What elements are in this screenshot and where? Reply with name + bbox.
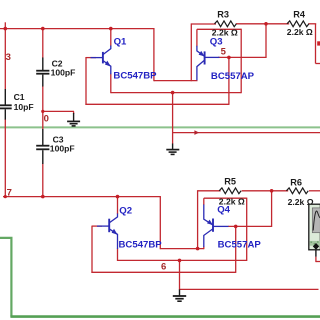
wire y92.6 emitter net [111, 92, 241, 94]
wire Q4 collector down red part [203, 247, 205, 250]
wire top rail VCC [0, 28, 155, 30]
wire x246.7 vertical [246, 198, 248, 261]
node arrow on wire y132.6 [194, 130, 199, 135]
capacitor C1 [0, 89, 34, 120]
wire y260.4 horizontal [118, 259, 247, 261]
svg-text:6: 6 [161, 262, 166, 273]
wire Q1 base red part [86, 57, 96, 59]
wire green net bottom horizontal [10, 315, 320, 318]
wire green net middle horizontal [0, 126, 320, 128]
wire Q1 emitter down [110, 74, 112, 94]
wire R6 right lead to edge [309, 190, 320, 192]
transistor Q1 BC547BP npn [91, 46, 111, 75]
wire y272.3 horizontal [91, 271, 235, 273]
wire x197.6 vertical R5 left [197, 190, 199, 248]
ground 1 near C2 [67, 113, 80, 126]
wire x266 vertical [265, 24, 267, 58]
svg-text:3: 3 [6, 52, 11, 63]
resistor R3 [212, 9, 238, 37]
capacitor C2 [36, 58, 75, 87]
svg-text:R3: R3 [217, 9, 229, 19]
wire y80.6 to R3 branch [154, 80, 198, 82]
svg-text:R4: R4 [293, 9, 306, 19]
wire x86 vertical [85, 57, 87, 105]
svg-text:BC557AP: BC557AP [218, 240, 262, 251]
resistor R5 [219, 176, 245, 206]
wire Q4 base to x271.6 [228, 225, 272, 227]
wire x315.5 vertical [315, 24, 317, 64]
wire x271.6 vertical [271, 191, 273, 227]
wire ground1 drop [73, 111, 75, 114]
capacitor C3 [36, 129, 74, 164]
wire R3 left lead [191, 23, 216, 25]
wire C2 bottom to junction [42, 86, 44, 129]
wire x235.7 vertical [235, 226, 237, 273]
wire Q1 collector up [110, 29, 112, 47]
wire Q3 base to x266 [218, 56, 266, 58]
wire y198.2 box top [204, 197, 247, 199]
svg-text:R6: R6 [290, 178, 302, 188]
wire x160.3 vertical [159, 197, 161, 250]
wire bottom rail y196.6 [3, 196, 161, 198]
ground 2 center [166, 144, 179, 155]
wire green net left stub [0, 238, 11, 317]
wire x228.9 vertical [228, 57, 230, 105]
wire R5 left lead [198, 190, 221, 192]
resistor R6 [286, 178, 313, 208]
wire Q4 emitter drop [203, 198, 205, 205]
wire Q2 emitter down [117, 249, 119, 262]
svg-text:C1: C1 [14, 92, 25, 102]
transistor Q2 BC547BP npn [97, 214, 118, 250]
svg-text:5: 5 [221, 47, 227, 58]
svg-text:10pF: 10pF [14, 102, 34, 112]
svg-text:100pF: 100pF [50, 144, 75, 154]
instrument XSC1 right edge [309, 204, 320, 262]
svg-text:2.2k Ω: 2.2k Ω [287, 27, 313, 37]
svg-text:Q4: Q4 [217, 204, 230, 215]
svg-text:0: 0 [44, 113, 49, 124]
wire C1 top [4, 29, 6, 90]
svg-text:100pF: 100pF [51, 68, 76, 78]
wire rail drop right [153, 28, 155, 81]
wire y132.6 to right edge [173, 132, 320, 134]
ground 3 bottom [173, 289, 186, 301]
svg-text:Q2: Q2 [119, 206, 132, 217]
resistor R4 [287, 9, 313, 37]
wire y104.3 horizontal [85, 103, 229, 105]
wire x92 vertical [91, 226, 93, 273]
svg-text:BC557AP: BC557AP [211, 71, 255, 82]
wire Q3 emitter drop [196, 29, 198, 46]
wire R5 to R6 [242, 190, 289, 192]
wire stub above rail at x5.3 [4, 22, 6, 28]
wire ground tap x172.6 [172, 93, 174, 144]
wire Q2 collector up [117, 197, 119, 214]
svg-text:7: 7 [7, 187, 12, 198]
wire C3 bottom [42, 164, 44, 197]
node junction dots [4, 27, 8, 31]
svg-text:R5: R5 [224, 176, 236, 186]
wire R4 right lead [308, 23, 316, 25]
wire R3 to R4 [236, 23, 289, 25]
wire ground tap x179.5 [179, 260, 181, 290]
svg-text:Q1: Q1 [114, 37, 127, 48]
transistor Q4 BC557AP pnp [204, 205, 229, 248]
wire y289.4 to right [180, 288, 319, 290]
wire Q2 base red part [92, 225, 102, 227]
wire y29.3 horizontal [197, 28, 241, 30]
wire C2 top [42, 29, 44, 58]
svg-text:BC547BP: BC547BP [113, 71, 157, 82]
wire x241.2 vertical [240, 29, 242, 94]
transistor Q3 BC557AP pnp [197, 46, 220, 80]
wire y111.4 to ground1 [43, 110, 74, 112]
svg-text:BC547BP: BC547BP [119, 240, 163, 251]
wire C1 bottom [4, 119, 6, 197]
wire y248.6 horizontal [160, 248, 204, 250]
wire x191.3 vertical [190, 23, 192, 81]
node terminal top right edge [317, 41, 320, 45]
wire y63.5 to right edge [316, 63, 320, 65]
